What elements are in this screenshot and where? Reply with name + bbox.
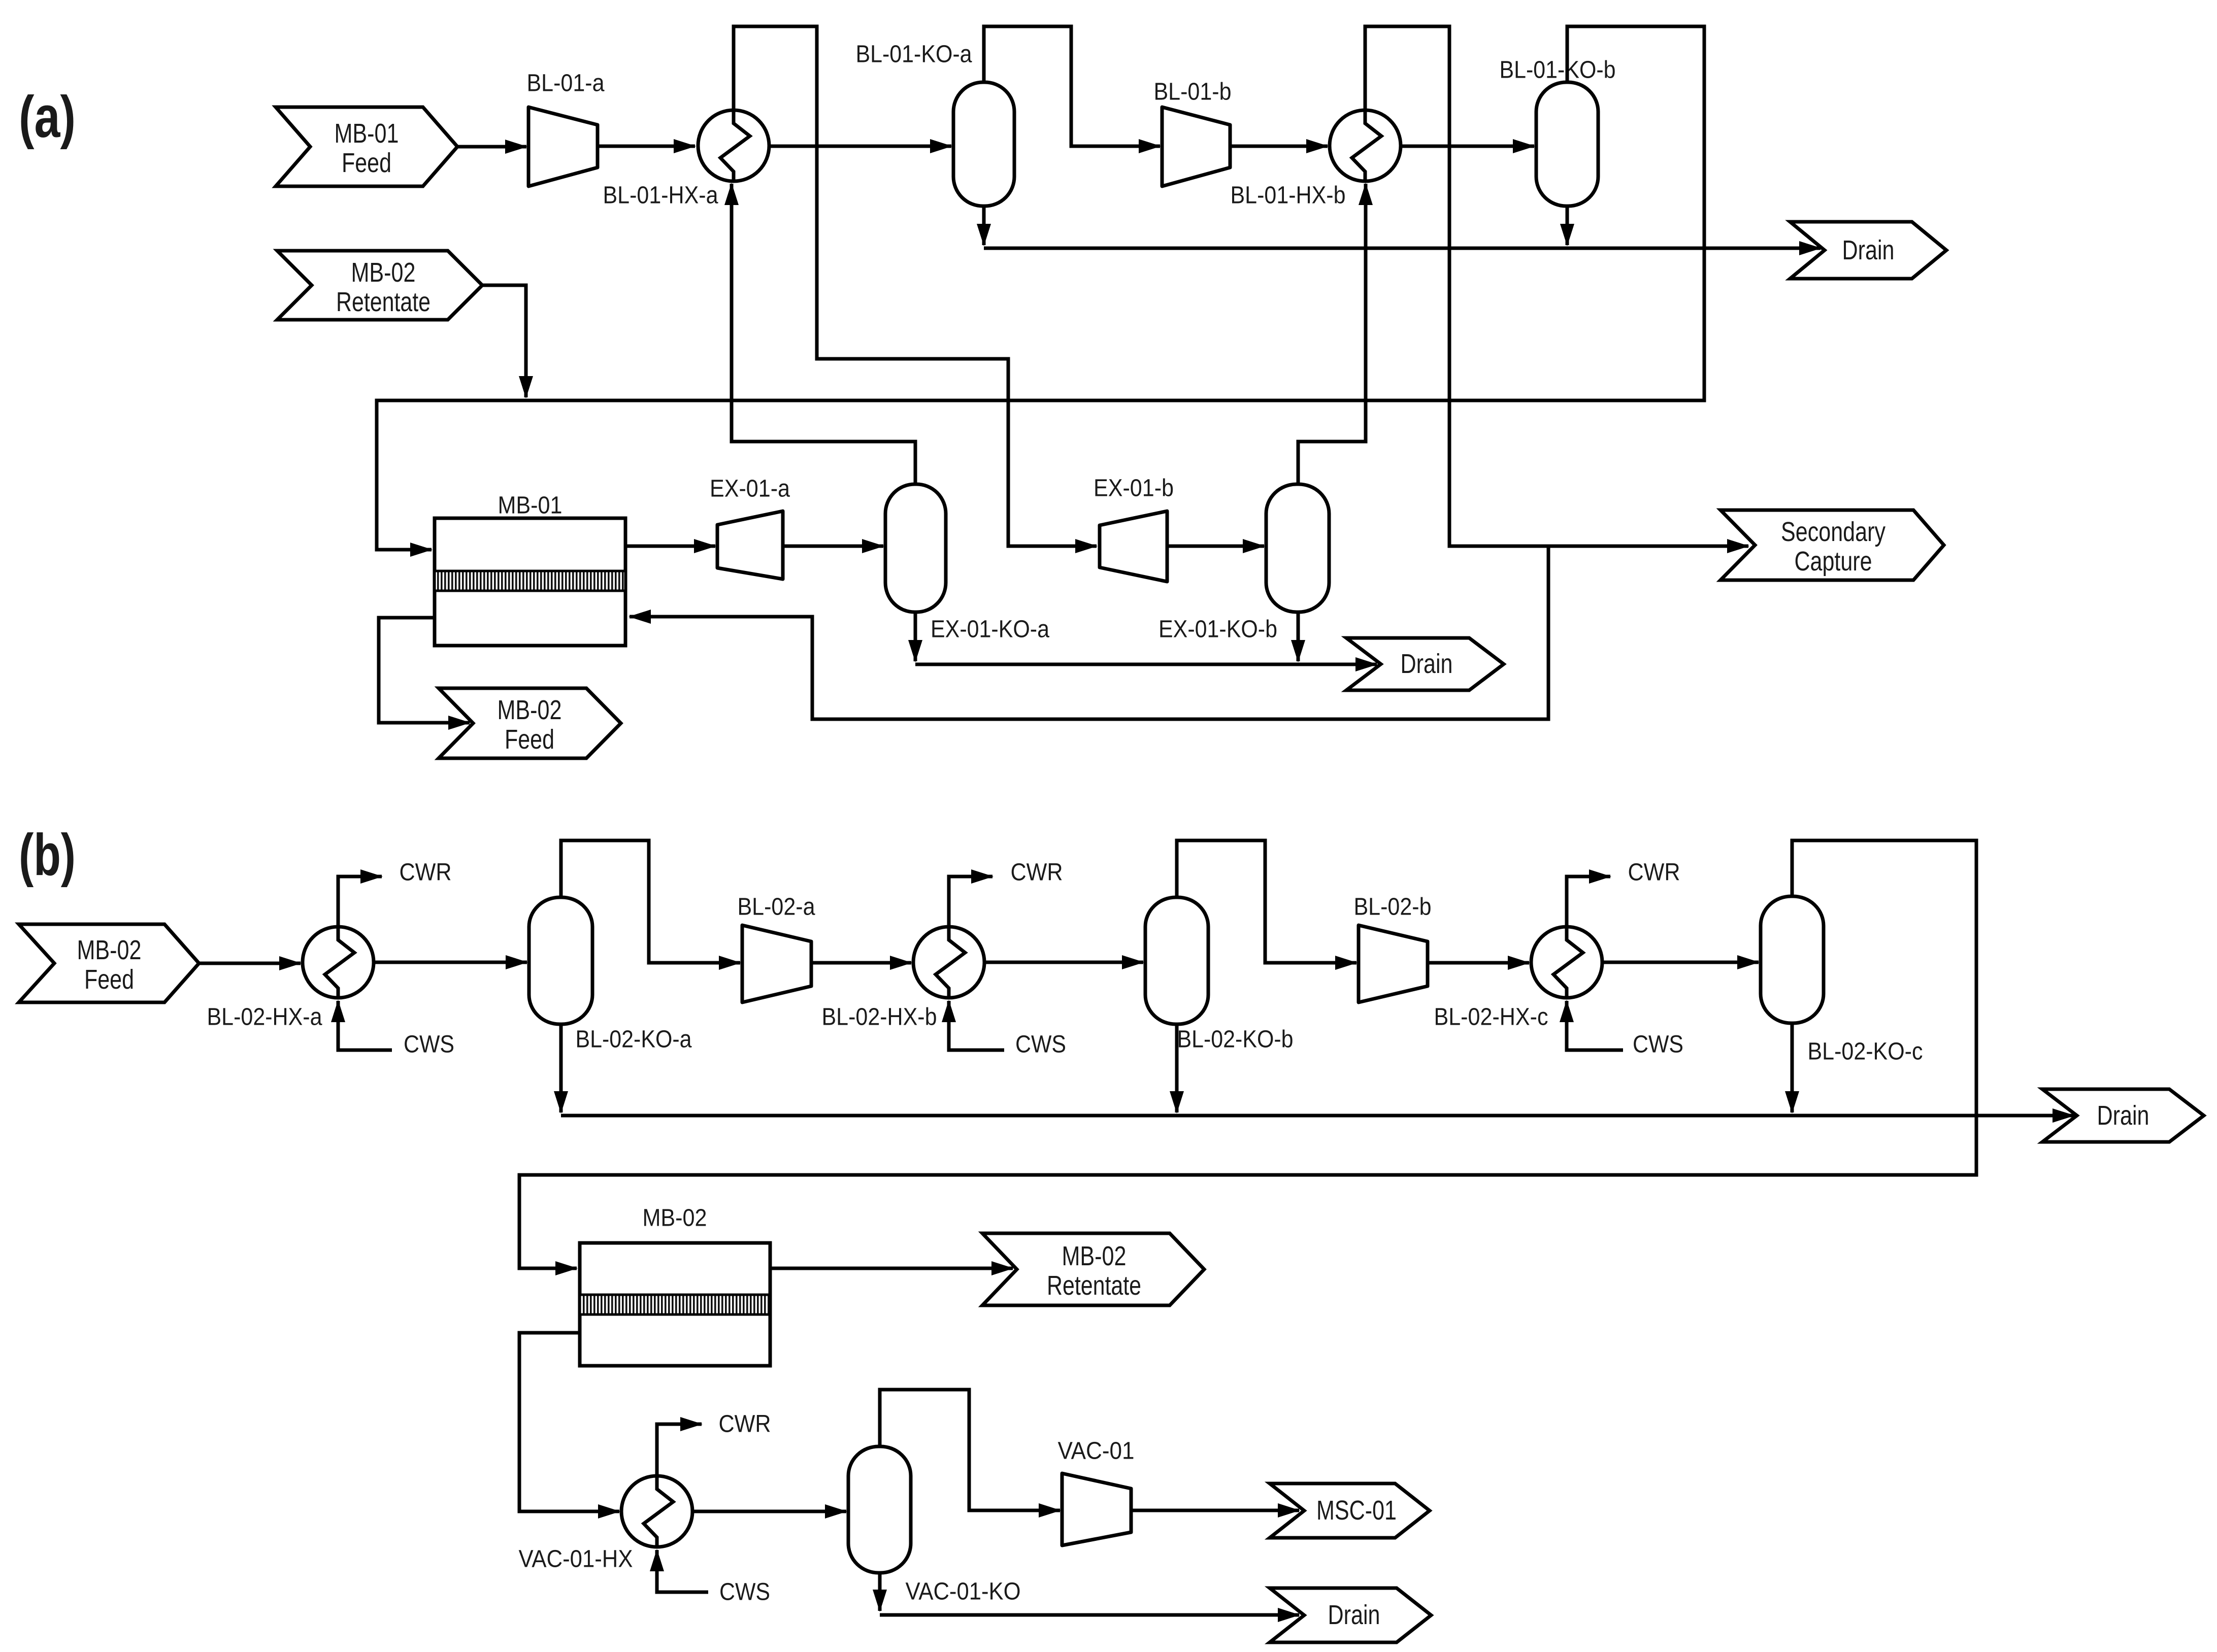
- label CWS vac: [719, 1579, 770, 1606]
- label EX-01-KO-a: [931, 616, 1049, 643]
- wire BL-01-HX-a to BL-01-KO-a: [770, 145, 951, 148]
- label CWR b: [1011, 859, 1063, 886]
- svg-text:(a): (a): [19, 84, 76, 150]
- wire EX-01-b to EX-01-KO-b: [1167, 545, 1264, 548]
- svg-text:BL-02-HX-a: BL-02-HX-a: [207, 1004, 322, 1031]
- svg-text:BL-02-HX-b: BL-02-HX-b: [822, 1004, 937, 1031]
- expander EX-01-a: [717, 511, 783, 579]
- wire MB-01 Feed to BL-01-a: [457, 145, 526, 149]
- label BL-02-KO-c: [1808, 1038, 1923, 1065]
- svg-text:Drain: Drain: [1842, 235, 1895, 265]
- wire CWS of BL-02-HX-a: [338, 1001, 392, 1050]
- wire CWR of BL-02-HX-a: [338, 876, 382, 927]
- stream flag MB-02 Feed (b): [19, 924, 199, 1002]
- stream flag MB-02 Retentate (b): [982, 1233, 1204, 1305]
- stream flag MB-02 Retentate (a): [277, 251, 482, 320]
- svg-text:BL-01-b: BL-01-b: [1154, 79, 1232, 106]
- heat exchanger BL-02-HX-b: [913, 927, 984, 998]
- svg-text:Drain: Drain: [2097, 1100, 2149, 1131]
- wire MB-02 Retentate join: [482, 285, 526, 397]
- heat exchanger BL-01-HX-a: [698, 110, 769, 181]
- svg-text:BL-01-HX-b: BL-01-HX-b: [1231, 182, 1346, 209]
- svg-text:CWR: CWR: [400, 859, 452, 886]
- stream flag Drain (a top): [1790, 222, 1946, 279]
- wire drain header (b): [561, 1114, 2074, 1118]
- heat exchanger VAC-01-HX: [621, 1476, 692, 1547]
- label BL-01-HX-a: [603, 182, 718, 209]
- svg-text:EX-01-KO-b: EX-01-KO-b: [1159, 616, 1277, 643]
- wire EX-01-a to EX-01-KO-a: [783, 545, 883, 548]
- stream flag Secondary Capture: [1720, 510, 1944, 580]
- wire EX-01-KO-a overhead to BL-01-HX-a cold in: [732, 184, 915, 484]
- wire VAC-01-HX to VAC-01-KO: [692, 1510, 846, 1513]
- label CWR a: [400, 859, 452, 886]
- wire VAC-01 to MSC-01: [1131, 1509, 1299, 1512]
- svg-text:EX-01-a: EX-01-a: [710, 476, 790, 502]
- wire BL-02-HX-c to BL-02-KO-c: [1602, 961, 1759, 964]
- stream flag Drain (b): [2042, 1089, 2204, 1142]
- svg-text:MSC-01: MSC-01: [1316, 1495, 1397, 1526]
- svg-text:MB-02: MB-02: [351, 257, 416, 288]
- wire CWS of BL-02-HX-c: [1567, 1001, 1623, 1050]
- svg-text:BL-01-HX-a: BL-01-HX-a: [603, 182, 718, 209]
- stream flag MB-02 Feed (a bottom): [439, 688, 621, 758]
- wire VAC drain line: [880, 1613, 1299, 1617]
- svg-text:Feed: Feed: [505, 724, 554, 755]
- label VAC-01-KO: [906, 1578, 1021, 1605]
- label BL-02-KO-a: [576, 1026, 692, 1053]
- membrane module MB-01: [435, 518, 625, 646]
- svg-text:VAC-01: VAC-01: [1058, 1438, 1135, 1465]
- blower BL-01-b: [1162, 107, 1230, 186]
- label BL-02-b: [1354, 894, 1432, 921]
- label BL-02-HX-c: [1434, 1004, 1548, 1031]
- wire EX-01-KO-b bottoms: [1297, 612, 1300, 661]
- knock-out drum BL-02-KO-b: [1145, 897, 1208, 1024]
- label BL-02-HX-a: [207, 1004, 322, 1031]
- svg-text:BL-02-a: BL-02-a: [738, 894, 815, 921]
- knock-out drum EX-01-KO-a: [885, 484, 946, 612]
- wire MB-02 retentate out: [770, 1267, 1013, 1270]
- wire BL-02-KO-c overhead to MB-02 feed: [519, 840, 1976, 1268]
- wire BL-02-KO-b overhead to BL-02-b: [1177, 840, 1356, 963]
- stream flag Drain (EX row): [1346, 638, 1504, 690]
- heat exchanger BL-02-HX-a: [303, 927, 374, 998]
- svg-text:VAC-01-KO: VAC-01-KO: [906, 1578, 1021, 1605]
- label BL-01-a: [527, 70, 605, 97]
- label CWS a: [404, 1031, 454, 1058]
- blower BL-01-a: [528, 107, 598, 186]
- svg-text:CWS: CWS: [1015, 1031, 1066, 1058]
- wire EX drain header: [915, 663, 1377, 666]
- label BL-02-KO-b: [1177, 1026, 1294, 1053]
- wire CWR of BL-02-HX-c: [1567, 876, 1610, 927]
- wire MB-01 permeate to MB-02 Feed flag: [379, 618, 470, 723]
- membrane module MB-02: [580, 1243, 770, 1366]
- svg-text:Drain: Drain: [1401, 649, 1453, 679]
- wire BL-01-KO-b bottoms to drain header: [1566, 206, 1569, 245]
- label BL-01-b: [1154, 79, 1232, 106]
- section label (a): [19, 84, 76, 150]
- svg-text:BL-01-a: BL-01-a: [527, 70, 605, 97]
- label BL-01-KO-b: [1500, 57, 1616, 84]
- wire MB-02 Feed to BL-02-HX-a: [199, 962, 301, 965]
- wire VAC-01-KO overhead to VAC-01: [880, 1390, 1060, 1510]
- knock-out drum BL-01-KO-a: [953, 82, 1014, 206]
- svg-text:CWR: CWR: [1628, 859, 1680, 886]
- svg-text:MB-02: MB-02: [77, 935, 142, 965]
- wire BL-02-a to BL-02-HX-b: [811, 961, 911, 965]
- label VAC-01: [1058, 1438, 1135, 1465]
- label BL-02-HX-b: [822, 1004, 937, 1031]
- blower BL-02-a: [742, 925, 811, 1002]
- stream flag MSC-01: [1270, 1484, 1430, 1538]
- wire BL-02-KO-c bottoms: [1791, 1023, 1794, 1112]
- label CWS b: [1015, 1031, 1066, 1058]
- wire MB-01 retentate to EX-01-a: [625, 545, 715, 548]
- wire BL-02-KO-b bottoms: [1175, 1024, 1179, 1112]
- svg-text:Feed: Feed: [342, 148, 391, 178]
- knock-out drum BL-02-KO-a: [529, 897, 592, 1024]
- svg-text:EX-01-KO-a: EX-01-KO-a: [931, 616, 1049, 643]
- svg-text:CWR: CWR: [1011, 859, 1063, 886]
- wire BL-01-HX-b to BL-01-KO-b: [1401, 145, 1534, 148]
- wire CWS of BL-02-HX-b: [949, 1001, 1004, 1050]
- svg-text:MB-02: MB-02: [498, 695, 562, 725]
- wire BL-02-KO-a overhead to BL-02-a: [561, 840, 740, 963]
- wire BL-01-b to BL-01-HX-b: [1230, 145, 1328, 148]
- label EX-01-b: [1094, 475, 1174, 502]
- wire branch to MB-01 sweep return: [630, 546, 1548, 719]
- section label (b): [19, 822, 76, 888]
- label MB-02: [643, 1205, 707, 1232]
- svg-text:(b): (b): [19, 822, 76, 888]
- wire CWR of BL-02-HX-b: [949, 876, 992, 927]
- label CWR c: [1628, 859, 1680, 886]
- svg-text:BL-02-b: BL-02-b: [1354, 894, 1432, 921]
- label EX-01-KO-b: [1159, 616, 1277, 643]
- wire CWR of VAC-01-HX: [657, 1424, 702, 1476]
- svg-text:Feed: Feed: [84, 964, 134, 995]
- label VAC-01-HX: [519, 1546, 633, 1573]
- label BL-01-KO-a: [856, 41, 972, 68]
- wire BL-02-HX-b to BL-02-KO-b: [984, 961, 1143, 964]
- wire VAC-01-KO bottoms: [878, 1573, 882, 1611]
- wire BL-01-HX-b hot out loop to Secondary Capture: [1365, 26, 1748, 546]
- svg-text:MB-01: MB-01: [498, 492, 562, 519]
- label BL-02-a: [738, 894, 815, 921]
- svg-text:BL-02-KO-a: BL-02-KO-a: [576, 1026, 692, 1053]
- label CWS c: [1633, 1031, 1683, 1058]
- wire BL-01-KO-a overhead to BL-01-b: [984, 26, 1160, 146]
- svg-text:Retentate: Retentate: [336, 287, 431, 317]
- svg-text:EX-01-b: EX-01-b: [1094, 475, 1174, 502]
- label MB-01: [498, 492, 562, 519]
- svg-text:MB-01: MB-01: [335, 118, 399, 149]
- svg-text:Retentate: Retentate: [1047, 1270, 1141, 1301]
- svg-text:Capture: Capture: [1795, 546, 1872, 577]
- svg-text:BL-02-HX-c: BL-02-HX-c: [1434, 1004, 1548, 1031]
- wire BL-02-b to BL-02-HX-c: [1428, 961, 1529, 965]
- wire BL-01-HX-a hot out loop to EX-01-b: [734, 26, 1097, 546]
- svg-text:MB-02: MB-02: [1062, 1241, 1127, 1271]
- expander EX-01-b: [1100, 511, 1167, 582]
- knock-out drum BL-01-KO-b: [1536, 82, 1598, 206]
- knock-out drum BL-02-KO-c: [1761, 896, 1824, 1023]
- svg-text:CWR: CWR: [719, 1411, 771, 1438]
- stream flag MB-01 Feed: [276, 107, 457, 186]
- knock-out drum EX-01-KO-b: [1266, 484, 1329, 612]
- wire BL-01-KO-b overhead recycle to MB-01 feed line: [377, 26, 1704, 550]
- svg-text:Secondary: Secondary: [1781, 517, 1885, 547]
- wire MB-02 permeate to VAC-01-HX: [519, 1333, 619, 1511]
- svg-text:CWS: CWS: [1633, 1031, 1683, 1058]
- svg-text:BL-02-KO-c: BL-02-KO-c: [1808, 1038, 1923, 1065]
- label CWR vac: [719, 1411, 771, 1438]
- wire CWS of VAC-01-HX: [657, 1550, 708, 1592]
- svg-text:BL-01-KO-b: BL-01-KO-b: [1500, 57, 1616, 84]
- blower VAC-01: [1062, 1473, 1131, 1545]
- svg-text:BL-01-KO-a: BL-01-KO-a: [856, 41, 972, 68]
- wire BL-02-HX-a to BL-02-KO-a: [374, 961, 527, 964]
- wire drain header (a): [984, 247, 1821, 250]
- blower BL-02-b: [1359, 925, 1428, 1002]
- heat exchanger BL-02-HX-c: [1531, 927, 1602, 998]
- stream flag Drain (VAC): [1270, 1588, 1431, 1642]
- svg-text:CWS: CWS: [719, 1579, 770, 1606]
- knock-out drum VAC-01-KO: [848, 1446, 911, 1573]
- wire EX-01-KO-b overhead to BL-01-HX-b cold in: [1298, 184, 1366, 484]
- svg-text:BL-02-KO-b: BL-02-KO-b: [1177, 1026, 1294, 1053]
- label EX-01-a: [710, 476, 790, 502]
- heat exchanger BL-01-HX-b: [1330, 110, 1401, 181]
- wire BL-02-KO-a bottoms: [559, 1024, 563, 1112]
- wire EX-01-KO-a bottoms: [914, 612, 917, 661]
- svg-text:Drain: Drain: [1328, 1600, 1380, 1630]
- svg-text:MB-02: MB-02: [643, 1205, 707, 1232]
- wire BL-01-KO-a bottoms to drain header: [982, 206, 986, 245]
- label BL-01-HX-b: [1231, 182, 1346, 209]
- svg-text:CWS: CWS: [404, 1031, 454, 1058]
- wire BL-01-a to BL-01-HX-a: [598, 145, 695, 148]
- svg-text:VAC-01-HX: VAC-01-HX: [519, 1546, 633, 1573]
